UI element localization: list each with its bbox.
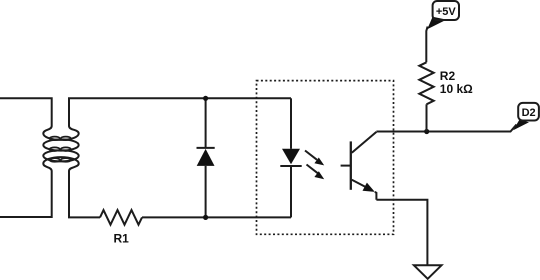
wire bottom rail from coil to R1: [69, 171, 100, 217]
wire R1 to LED: [142, 216, 291, 218]
coil crossover lenses row 3: [50, 158, 60, 162]
svg-text:10 kΩ: 10 kΩ: [440, 82, 473, 96]
wire top-left from edge to coil: [0, 98, 52, 126]
wire collector to D2 node: [376, 125, 516, 132]
junction dot top of diode: [203, 96, 208, 101]
coil ring 3: [43, 150, 78, 161]
bottom bell of coil: [43, 157, 78, 171]
resistor R2: [419, 62, 433, 104]
junction dot bottom of diode: [203, 215, 208, 220]
phototransistor base stub: [341, 165, 351, 167]
inductor L1 (coil): [43, 126, 78, 171]
svg-text:R1: R1: [114, 232, 130, 246]
resistor R1: [100, 210, 142, 225]
junction dot at collector/R2 node: [424, 129, 429, 134]
coil crossover lenses row 1: [50, 137, 71, 162]
coil crossover lenses row 2: [50, 147, 60, 151]
wire bottom-left from edge to coil: [0, 171, 52, 217]
svg-text:+5V: +5V: [436, 6, 457, 18]
diode D1 (flyback, cathode up): [197, 98, 215, 217]
top bell of coil: [43, 126, 78, 140]
phototransistor emitter diagonal with arrow: [352, 180, 377, 200]
wire emitter to ground: [376, 200, 427, 265]
D2 output flag: [513, 103, 539, 130]
light arrow 1: [305, 151, 324, 166]
wire node up to R2: [426, 104, 428, 131]
wire top rail from coil to LED: [69, 98, 291, 126]
ground symbol: [414, 265, 442, 279]
svg-text:D2: D2: [522, 107, 536, 119]
optocoupler dashed box: [257, 81, 394, 235]
+5V supply flag: [427, 1, 459, 29]
phototransistor Q1 base bar: [350, 141, 352, 189]
svg-text:R2: R2: [440, 69, 456, 83]
LED inside optocoupler (anode up): [280, 98, 301, 217]
wire R2 to +5V flag: [426, 27, 427, 63]
coil ring 2: [43, 139, 78, 150]
light arrow 2: [307, 165, 325, 180]
phototransistor collector diagonal: [352, 132, 377, 153]
